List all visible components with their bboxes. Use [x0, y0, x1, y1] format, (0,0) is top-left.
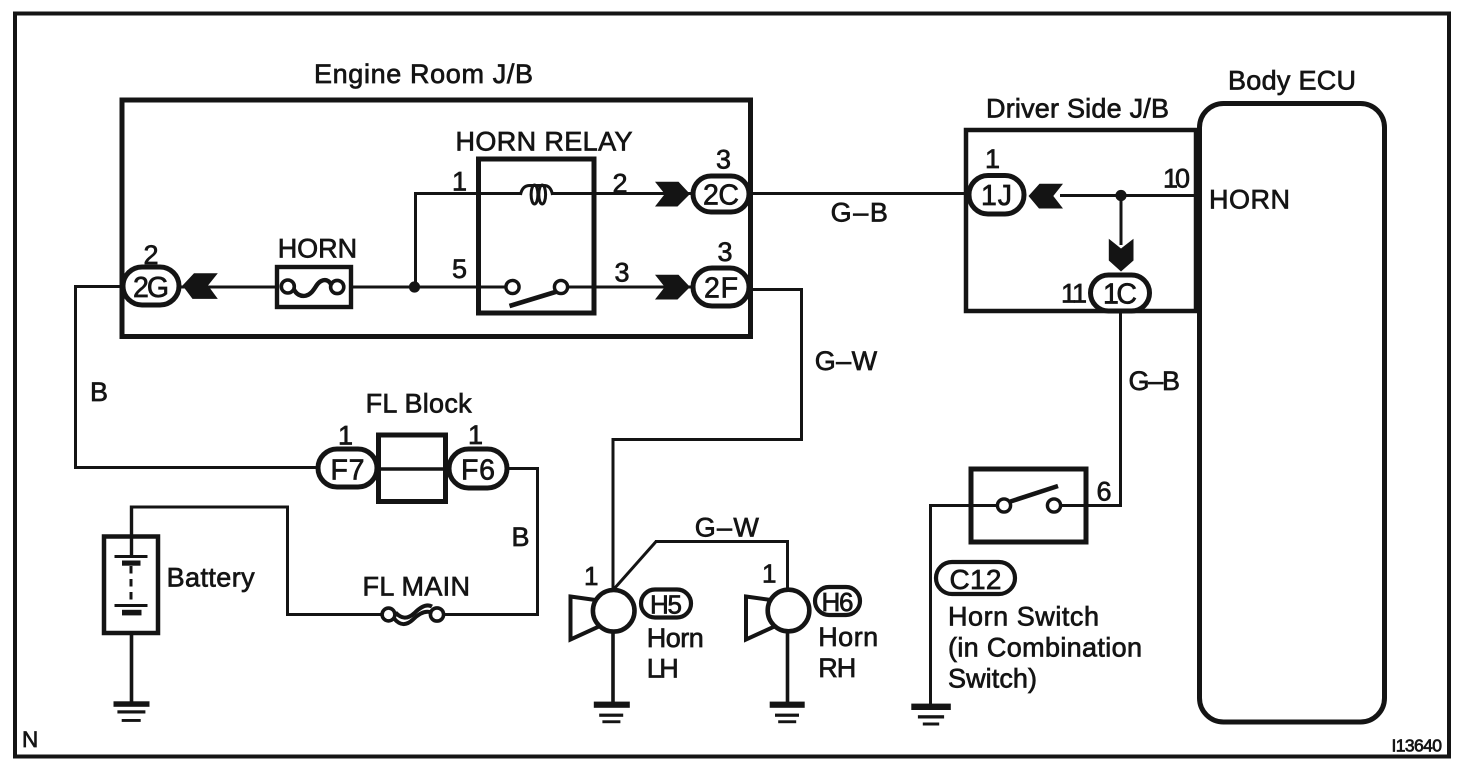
- wire horn top horizontal: [612, 438, 804, 441]
- svg-text:G–W: G–W: [695, 513, 760, 543]
- svg-text:2: 2: [613, 169, 628, 199]
- svg-text:HORN: HORN: [1209, 185, 1290, 215]
- wire 2F to corner: [750, 288, 803, 291]
- wire arrow to fuse: [180, 286, 279, 289]
- FL Block box: [379, 435, 446, 502]
- Driver Side J/B box: [966, 130, 1196, 311]
- svg-text:3: 3: [716, 145, 731, 175]
- wire 1J to ECU: [1060, 194, 1199, 197]
- svg-text:Horn Switch: Horn Switch: [948, 602, 1099, 632]
- svg-text:G–B: G–B: [1129, 366, 1181, 396]
- HORN fuse element: [281, 280, 344, 296]
- svg-text:1: 1: [338, 421, 353, 451]
- battery top terminal: [130, 506, 133, 558]
- horn RH ground wire: [786, 630, 790, 702]
- svg-text:5: 5: [452, 254, 467, 284]
- svg-text:1: 1: [985, 144, 1000, 174]
- arrow into 2C: [655, 182, 690, 207]
- ground horn LH: [594, 702, 630, 724]
- svg-text:6: 6: [1097, 477, 1112, 507]
- arrow down into 1C: [1109, 239, 1134, 272]
- svg-text:B: B: [90, 377, 108, 407]
- ground battery: [114, 701, 150, 722]
- wire B right vertical: [536, 467, 539, 615]
- svg-text:Horn: Horn: [647, 623, 704, 653]
- wire pin2 to 2C: [552, 192, 694, 195]
- svg-text:3: 3: [718, 237, 733, 267]
- connector 2G: [123, 267, 179, 305]
- arrow into 2G: [183, 273, 218, 299]
- wire horn branch diagonal: [614, 541, 657, 590]
- svg-text:Engine Room J/B: Engine Room J/B: [314, 59, 533, 89]
- wire F6 right: [506, 467, 538, 470]
- horn RH bell: [746, 597, 775, 640]
- wire battery top horizontal: [130, 506, 289, 509]
- arrow into 2F: [655, 275, 690, 300]
- wire battery right vertical: [286, 506, 289, 617]
- wire 2G stub: [76, 285, 124, 288]
- connector 2C: [693, 176, 749, 212]
- wire switch left stub: [929, 504, 999, 507]
- wire fuse to relay pin5: [350, 286, 507, 289]
- svg-text:F7: F7: [331, 455, 365, 487]
- HORN fuse box: [277, 267, 351, 307]
- horn LH ground wire: [611, 631, 615, 702]
- svg-text:N: N: [22, 727, 38, 752]
- connector H5: [641, 590, 691, 618]
- svg-text:1C: 1C: [1103, 279, 1137, 311]
- wire switch pin6: [1059, 504, 1122, 507]
- svg-text:1: 1: [468, 420, 483, 450]
- wire pin1 vertical: [414, 194, 417, 288]
- svg-text:11: 11: [1061, 279, 1087, 309]
- connector F7: [318, 449, 377, 487]
- svg-text:Body ECU: Body ECU: [1228, 66, 1356, 96]
- FL Block divider: [379, 467, 446, 470]
- wire switch ground drop: [929, 504, 932, 704]
- connector C12: [936, 562, 1015, 594]
- svg-text:RH: RH: [818, 653, 856, 683]
- svg-text:C12: C12: [950, 564, 1002, 595]
- battery: [104, 537, 158, 634]
- wire FL MAIN right: [444, 613, 539, 616]
- svg-text:(in Combination: (in Combination: [948, 633, 1142, 663]
- svg-text:10: 10: [1163, 164, 1190, 194]
- svg-text:Switch): Switch): [948, 664, 1037, 694]
- svg-text:1: 1: [452, 167, 467, 197]
- HORN RELAY box: [479, 159, 595, 313]
- relay switch: [506, 280, 568, 306]
- svg-text:2: 2: [144, 240, 159, 270]
- wire pin1 horizontal: [414, 192, 521, 195]
- wire horn LH drop: [612, 438, 615, 590]
- wire pin3 to 2F: [566, 286, 694, 289]
- wire 1C down to switch: [1119, 311, 1122, 506]
- wire horn RH drop: [786, 540, 789, 590]
- connector 1J: [969, 176, 1024, 215]
- horn switch contacts: [997, 486, 1060, 512]
- ground horn RH: [770, 702, 805, 724]
- arrow into 1J: [1029, 184, 1064, 209]
- wire horn RH horizontal: [655, 540, 789, 543]
- horn RH body: [768, 590, 810, 632]
- connector F6: [449, 449, 507, 488]
- svg-text:FL Block: FL Block: [366, 388, 473, 418]
- svg-text:H5: H5: [650, 590, 682, 620]
- wire node down to arrow: [1120, 196, 1123, 246]
- Engine Room J/B box: [122, 100, 751, 337]
- svg-text:F6: F6: [461, 455, 495, 487]
- node dot: [1115, 190, 1126, 201]
- wire 2C to 1J: [750, 192, 970, 195]
- svg-text:I13640: I13640: [1392, 736, 1443, 756]
- horn LH bell: [571, 597, 600, 640]
- svg-text:3: 3: [615, 258, 630, 288]
- connector 1C: [1091, 275, 1150, 311]
- svg-text:G–W: G–W: [815, 346, 878, 376]
- svg-text:H6: H6: [822, 587, 854, 617]
- relay coil L: [521, 185, 553, 204]
- svg-text:Driver Side J/B: Driver Side J/B: [986, 94, 1169, 124]
- svg-text:HORN: HORN: [278, 233, 357, 263]
- FL MAIN fusible link: [382, 605, 444, 624]
- connector 2F: [693, 268, 749, 306]
- svg-text:HORN RELAY: HORN RELAY: [456, 127, 633, 157]
- svg-text:Battery: Battery: [167, 563, 256, 593]
- horn switch box: [971, 469, 1086, 542]
- svg-text:FL MAIN: FL MAIN: [363, 572, 471, 602]
- Body ECU box: [1200, 104, 1385, 723]
- svg-text:LH: LH: [647, 654, 679, 684]
- svg-text:Horn: Horn: [818, 622, 878, 652]
- svg-text:B: B: [512, 522, 530, 552]
- wire B vertical: [74, 285, 77, 469]
- battery ground wire: [130, 633, 134, 702]
- svg-text:G–B: G–B: [831, 198, 888, 228]
- svg-text:1J: 1J: [981, 180, 1012, 212]
- svg-text:2G: 2G: [133, 272, 169, 304]
- svg-text:1: 1: [762, 559, 776, 589]
- wire B to F7: [74, 466, 320, 469]
- horn LH body: [593, 590, 635, 632]
- svg-text:2F: 2F: [704, 273, 738, 305]
- ground horn switch: [911, 704, 951, 726]
- connector H6: [815, 587, 860, 615]
- svg-text:2C: 2C: [703, 180, 739, 212]
- wire G-W vertical: [800, 290, 803, 442]
- svg-text:1: 1: [584, 561, 598, 591]
- wire FL MAIN left: [286, 613, 383, 616]
- junction dot: [409, 281, 420, 292]
